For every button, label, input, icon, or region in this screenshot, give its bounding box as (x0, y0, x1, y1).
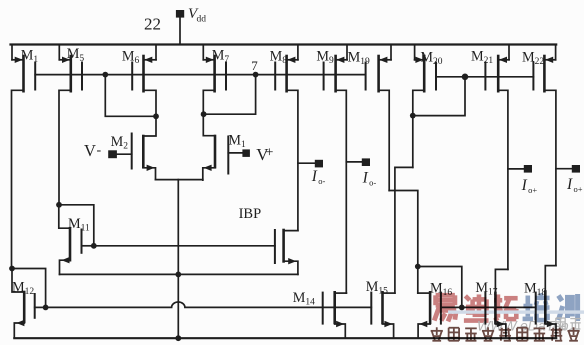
svg-text:o+: o+ (528, 185, 537, 195)
svg-text:22: 22 (144, 15, 161, 34)
svg-text:7: 7 (251, 58, 258, 73)
svg-text:V: V (84, 141, 96, 160)
svg-text:I: I (311, 168, 318, 185)
svg-text:I: I (521, 177, 528, 194)
svg-text:I: I (566, 176, 573, 193)
svg-text:I: I (362, 170, 369, 187)
svg-text:o+: o+ (574, 184, 583, 194)
svg-text:-: - (97, 143, 102, 158)
svg-text:o-: o- (318, 176, 325, 186)
svg-text:o-: o- (369, 178, 376, 188)
svg-text:IBP: IBP (239, 206, 262, 222)
svg-text:+: + (265, 145, 273, 161)
svg-text:dd: dd (197, 15, 207, 25)
